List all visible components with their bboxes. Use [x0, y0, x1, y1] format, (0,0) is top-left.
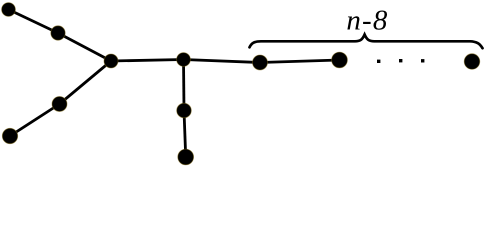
node v10 (spine fourth vertex) — [332, 52, 348, 68]
node hub (central branching vertex) — [104, 54, 118, 68]
edge v5-v6b (vertical branch lower) — [184, 111, 186, 157]
ellipsis dot 1 — [377, 60, 380, 63]
edge v4-v5 (vertical branch upper) — [182, 60, 185, 111]
node v1 (top-left end) — [2, 3, 16, 17]
node v6 (bottom-left end) — [2, 128, 17, 143]
ellipsis dot 3 — [421, 59, 424, 62]
edge v9-v10 (spine segment 3) — [260, 60, 340, 63]
node v7 (bottom-left middle) — [52, 97, 67, 112]
ellipsis dot 2 — [399, 59, 402, 62]
node v5 (vertical branch middle) — [177, 103, 192, 118]
node v9 (spine third vertex) — [253, 55, 268, 70]
svg-text:n-8: n-8 — [346, 5, 388, 37]
edge hub-v4 (spine segment 1) — [111, 60, 184, 62]
edge v7-hub (bottom-left branch inner) — [60, 61, 112, 104]
node v6b (vertical branch bottom) — [178, 149, 194, 165]
edge v1-v2 (top-left branch outer) — [9, 10, 59, 34]
node v4 (spine vertex with vertical branch) — [177, 53, 191, 67]
edge v2-hub (top-left branch inner) — [58, 33, 111, 61]
node v2 (top-left middle) — [51, 26, 65, 40]
edge v6-v7 (bottom-left branch outer) — [10, 104, 60, 136]
overbrace (curly brace spanning right chain) — [250, 35, 483, 49]
node v11 (rightmost end vertex) — [464, 54, 480, 70]
edge v4-v9 (spine segment 2) — [184, 60, 261, 63]
